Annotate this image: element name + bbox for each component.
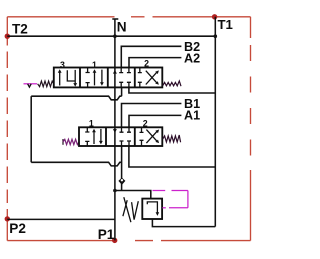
enclosure boundary bottom edge (red) [7, 240, 250, 242]
valve V1 pilot line (magenta) [24, 83, 38, 85]
wire parallel feed loop upper with crossover dip [31, 96, 121, 100]
wire parallel feed stub below valve1 [121, 87, 123, 96]
svg-text:A2: A2 [184, 52, 200, 66]
port dot P2 [5, 216, 10, 221]
svg-text:T1: T1 [218, 17, 233, 32]
valve V1 divider 2 [107, 68, 109, 88]
enclosure boundary top edge (red) [7, 16, 250, 18]
wire relief outlet to tank [152, 219, 215, 227]
wire port B1 [122, 104, 182, 128]
wire P2 inlet line [7, 218, 115, 220]
valve V1 left spring [38, 81, 54, 87]
check valve V1 [118, 178, 125, 185]
valve V2 position 1 arrows [92, 129, 103, 145]
relief valve RV1 adjustable spring [123, 197, 138, 222]
wire valve1 tank return [129, 87, 215, 93]
valve V1 position 1 arrows [93, 69, 104, 86]
valve V2 left spring [63, 139, 79, 145]
svg-text:3: 3 [60, 60, 65, 70]
svg-text:1: 1 [89, 118, 94, 128]
wire port A1 [129, 115, 181, 127]
valve V2 position 2 blocked port symbols [140, 127, 144, 146]
valve V1 position 2 crossed arrows [146, 70, 159, 84]
enclosure boundary left edge (red dashed) [6, 17, 8, 241]
valve V2 right spring [163, 135, 181, 142]
valve V1 body [54, 68, 163, 88]
valve V2 neutral bypass arrow [113, 129, 117, 133]
valve V2 divider 2 [134, 127, 136, 146]
svg-text:P2: P2 [9, 221, 26, 236]
valve V1 divider 3 [134, 68, 136, 88]
port dot P1 [112, 238, 117, 243]
relief valve RV1 internal arrow [147, 202, 159, 216]
wire neutral bypass vertical N to P1 [114, 19, 116, 240]
valve V1 right spring [163, 81, 181, 86]
valve V2 position 1 blocked port symbols [85, 127, 89, 146]
svg-text:1: 1 [92, 60, 97, 70]
wire relief pilot line [115, 191, 151, 199]
svg-text:A1: A1 [184, 109, 200, 123]
enclosure boundary right edge (red dashed) [250, 17, 252, 241]
plugged port N cap [112, 18, 118, 20]
valve V1 position 2 blocked port symbols [138, 68, 142, 88]
valve V2 body [79, 127, 162, 146]
svg-text:P1: P1 [98, 227, 115, 242]
valve V1 neutral bypass arrow [113, 70, 117, 74]
valve V1 position 1 blocked port symbols [86, 68, 90, 88]
valve V2 position 2 crossed arrows [146, 130, 159, 144]
wire valve2 tank return [129, 146, 215, 167]
svg-text:2: 2 [143, 119, 148, 129]
svg-text:N: N [117, 20, 127, 35]
wire tank line T2 to T1 riser [7, 35, 215, 37]
port dot T2 [5, 34, 10, 39]
node junction T1 riser on tank line [214, 34, 218, 38]
valve V2 divider 1 [105, 127, 107, 146]
relief valve RV1 body [142, 199, 162, 219]
wire T1 riser down right side to relief outlet [214, 17, 216, 227]
valve V1 port gallery blocked stubs [119, 68, 131, 88]
wire port A2 [129, 58, 181, 68]
wire check valve line valve2 to P gallery [121, 146, 123, 191]
valve V1 pilot notch [28, 84, 32, 87]
valve V1 divider 1 [79, 68, 81, 88]
wire parallel feed loop lower with crossover dip [31, 162, 121, 166]
port dot T1 [212, 14, 217, 19]
wire parallel feed loop left vertical [30, 96, 32, 162]
node junction P1 gallery [113, 189, 117, 193]
svg-text:2: 2 [144, 58, 149, 68]
valve V1 position 3 arrows [58, 69, 77, 86]
svg-text:T2: T2 [12, 22, 28, 37]
remote vent option box (magenta dashed) [153, 191, 188, 208]
wire port B2 [121, 46, 181, 67]
node junction N on tank line [113, 34, 117, 38]
valve V2 port gallery blocked stubs [120, 127, 132, 146]
